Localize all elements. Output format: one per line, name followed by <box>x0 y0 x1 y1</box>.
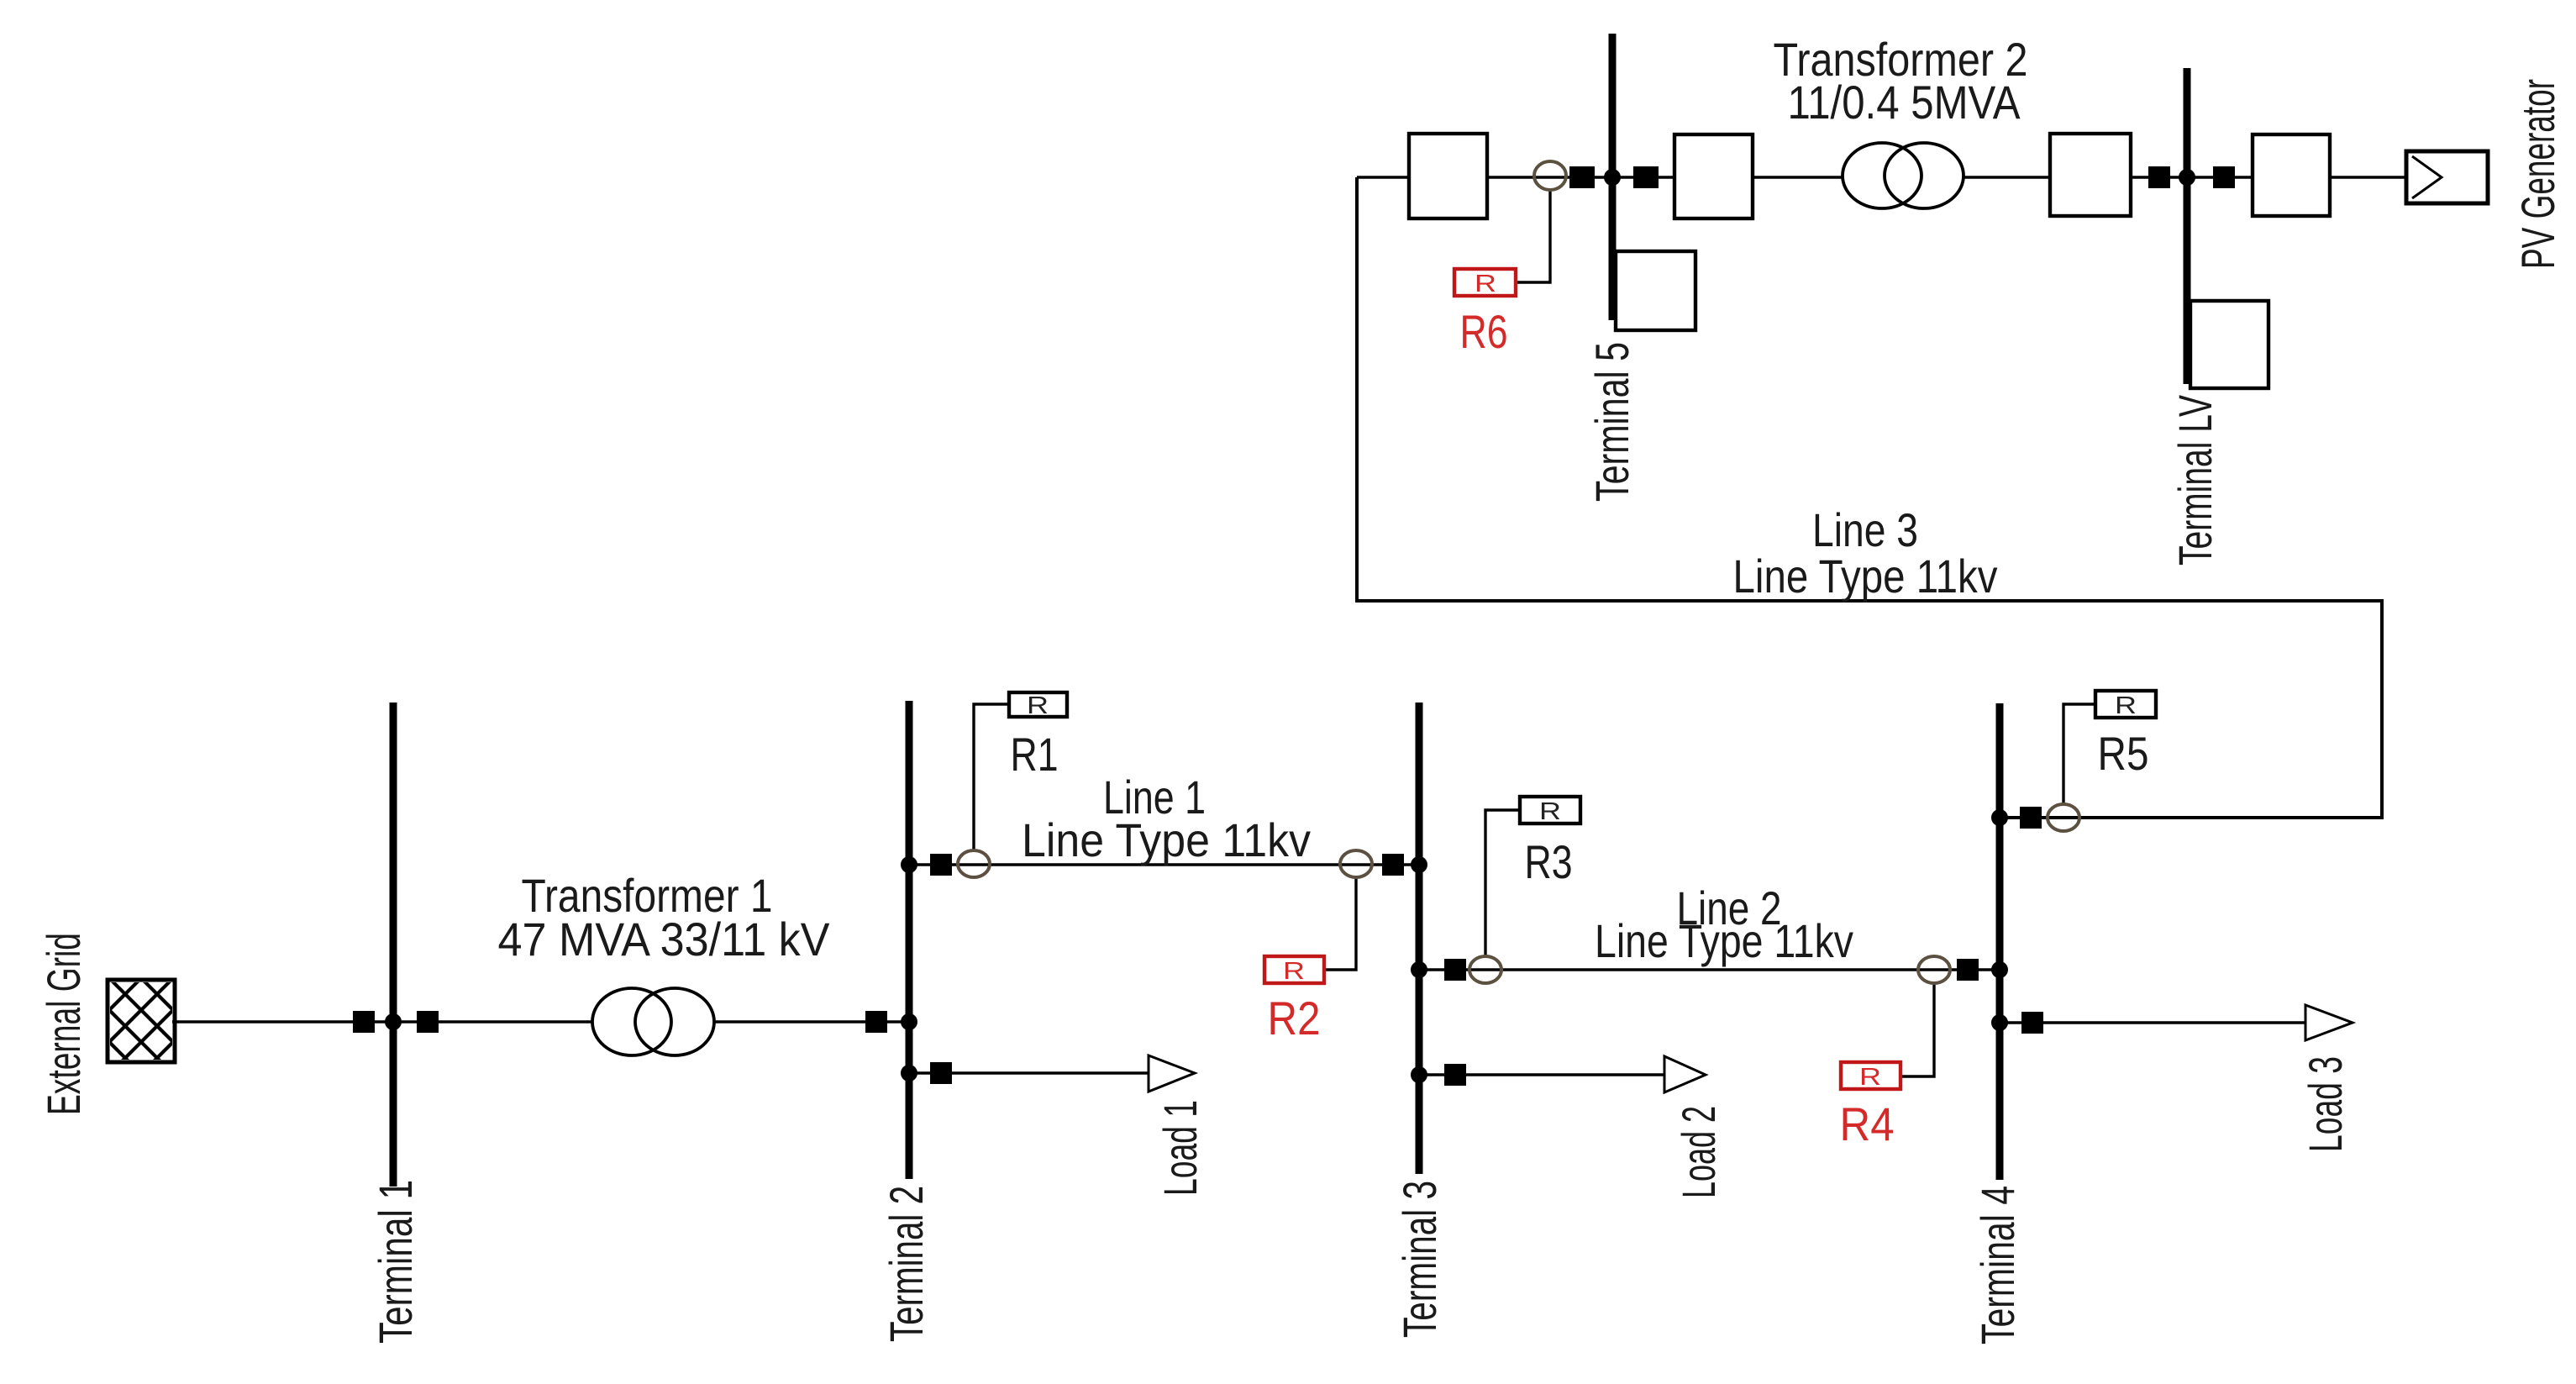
node Terminal 2 / transformer wire <box>901 1013 917 1030</box>
svg-text:Line Type 11kv: Line Type 11kv <box>1733 550 1998 603</box>
svg-text:R: R <box>2115 692 2137 719</box>
wire R2 stub <box>1324 878 1356 970</box>
breaker square right of Terminal LV <box>2213 166 2235 188</box>
wire transformer1 to Terminal 2 <box>714 1020 906 1023</box>
svg-text:R2: R2 <box>1268 992 1321 1045</box>
svg-text:PV Generator: PV Generator <box>2511 79 2564 269</box>
svg-text:R: R <box>1539 798 1561 825</box>
svg-text:R: R <box>1859 1064 1881 1091</box>
wire R6 stub <box>1516 190 1550 282</box>
node Terminal 3 / Load 2 <box>1411 1066 1427 1083</box>
measurement circle R3 tap on Line 2 <box>1469 956 1501 983</box>
node Terminal 2 / Line 1 <box>901 856 917 873</box>
breaker square Load 1 <box>930 1062 952 1084</box>
svg-text:Line 3: Line 3 <box>1812 503 1918 556</box>
bus Terminal 3 <box>1416 703 1423 1174</box>
breaker square right of Terminal 5 <box>1633 166 1659 188</box>
measurement circle R4 tap on Line 2 <box>1918 956 1950 983</box>
wire transformer2 to box3 <box>1964 176 2050 178</box>
svg-text:R6: R6 <box>1460 305 1508 358</box>
transformer T2 (11/0.4 5MVA) <box>1843 143 1964 208</box>
relay R1 (black) <box>1009 692 1067 717</box>
svg-text:R1: R1 <box>1011 728 1059 781</box>
svg-text:Load 1: Load 1 <box>1154 1100 1207 1196</box>
svg-text:Terminal 4: Terminal 4 <box>1971 1186 2024 1345</box>
breaker square Terminal 2 transformer side <box>865 1011 887 1033</box>
wire box3 through Terminal LV to box4 <box>2131 176 2253 178</box>
bus Terminal 2 <box>906 701 913 1179</box>
load 3 arrow <box>2305 1005 2353 1040</box>
junction dot Terminal5 <box>1604 169 1621 186</box>
node Terminal 1 / transformer wire <box>385 1013 402 1030</box>
wire Load 3 <box>2003 1021 2305 1024</box>
breaker square Terminal 3 Line 1 side <box>1382 854 1404 876</box>
breaker box B1 <box>1409 134 1487 218</box>
bus Terminal 4 <box>1996 703 2004 1180</box>
node Terminal 4 / Load 3 <box>1991 1014 2008 1031</box>
PV Generator symbol <box>2406 151 2488 203</box>
svg-text:Terminal 3: Terminal 3 <box>1393 1181 1446 1338</box>
breaker square Load 3 <box>2021 1012 2043 1034</box>
wire Terminal 1 to transformer1 <box>397 1020 592 1023</box>
breaker square right of Terminal 1 <box>417 1011 439 1033</box>
wire Line 1 <box>912 863 1416 866</box>
wires bottom <box>172 704 2305 1076</box>
wire R3 stub <box>1485 810 1520 956</box>
breaker box B4 <box>2253 134 2330 216</box>
relay R6 (red) <box>1454 269 1516 296</box>
node Terminal 3 / Line 1 <box>1411 856 1427 873</box>
wire top horizontal left segment <box>1357 176 1409 178</box>
wire R1 stub <box>974 704 1009 851</box>
bus Terminal 5 <box>1609 34 1617 320</box>
relay R2 (red) <box>1264 956 1324 983</box>
node Terminal 3 / Line 2 <box>1411 961 1427 978</box>
breaker square Terminal 4 Line 3 side <box>2020 807 2042 829</box>
breaker box B2 <box>1674 134 1753 218</box>
node Terminal 4 / Line 3 <box>1991 809 2008 826</box>
wire Line 2 <box>1422 968 1996 971</box>
breaker square left of Terminal 1 <box>353 1011 375 1033</box>
wire Line 3 loop <box>1357 177 2382 818</box>
relay R3 (black) <box>1520 797 1580 824</box>
box under Terminal 5 <box>1616 251 1695 330</box>
wire box4 to PV generator <box>2330 176 2406 178</box>
wire ext grid to Terminal 1 <box>172 1020 390 1023</box>
load 2 arrow <box>1664 1056 1706 1092</box>
wire R4 stub <box>1900 983 1934 1076</box>
wire R5 stub <box>2063 704 2095 804</box>
svg-text:Terminal 1: Terminal 1 <box>369 1180 422 1344</box>
wire box2 to transformer2 <box>1753 176 1843 178</box>
svg-text:R5: R5 <box>2098 727 2149 780</box>
box under Terminal LV <box>2190 301 2268 388</box>
svg-text:47 MVA 33/11 kV: 47 MVA 33/11 kV <box>498 913 831 966</box>
breaker square left of Terminal 5 <box>1569 166 1595 188</box>
relay R4 (red) <box>1841 1062 1900 1089</box>
svg-text:R: R <box>1475 271 1496 297</box>
wire Line3 top-left corner vertical and horizontal run <box>1357 177 2406 818</box>
svg-text:Terminal LV: Terminal LV <box>2169 395 2221 566</box>
breaker square left of Terminal LV <box>2148 166 2170 188</box>
svg-text:R3: R3 <box>1525 835 1573 888</box>
junction dot Terminal LV <box>2179 169 2195 186</box>
load 1 arrow <box>1149 1055 1195 1092</box>
wire Load 1 <box>912 1071 1149 1074</box>
bus Terminal 1 <box>390 703 397 1187</box>
breaker box B3 <box>2050 134 2131 216</box>
svg-text:External Grid: External Grid <box>37 933 90 1115</box>
svg-text:Load 3: Load 3 <box>2299 1056 2352 1152</box>
svg-text:R4: R4 <box>1840 1097 1895 1150</box>
measurement circle at R6 tap <box>1534 161 1566 190</box>
wire box1 to Terminal5 <box>1487 176 1674 178</box>
measurement circle R2 tap on Line 1 <box>1340 850 1372 877</box>
node Terminal 2 / Load 1 <box>901 1065 917 1081</box>
svg-text:R: R <box>1027 692 1049 719</box>
measurement circle at R5 tap <box>2048 804 2079 831</box>
svg-text:Terminal 2: Terminal 2 <box>880 1186 933 1342</box>
svg-text:R: R <box>1283 958 1305 985</box>
breaker square Terminal 2 Line 1 side <box>930 854 952 876</box>
breaker square Terminal 3 Line 2 side <box>1444 959 1466 981</box>
wire Load 2 <box>1422 1073 1664 1076</box>
breaker square Load 2 <box>1444 1064 1466 1086</box>
svg-text:Line Type 11kv: Line Type 11kv <box>1595 914 1853 967</box>
relay R5 (black) <box>2095 691 2156 718</box>
External Grid symbol <box>27 887 291 1168</box>
transformer T1 (47 MVA 33/11 kV) <box>592 988 714 1055</box>
breaker square Terminal 4 Line 2 side <box>1957 959 1979 981</box>
svg-text:Line Type 11kv: Line Type 11kv <box>1022 813 1311 866</box>
svg-text:Terminal 5: Terminal 5 <box>1585 342 1638 502</box>
svg-text:Load 2: Load 2 <box>1672 1106 1725 1198</box>
svg-text:11/0.4 5MVA: 11/0.4 5MVA <box>1788 76 2021 129</box>
measurement circle R1 tap on Line 1 <box>958 850 990 877</box>
node Terminal 4 / Line 2 <box>1991 961 2008 978</box>
bus Terminal LV <box>2184 68 2191 384</box>
